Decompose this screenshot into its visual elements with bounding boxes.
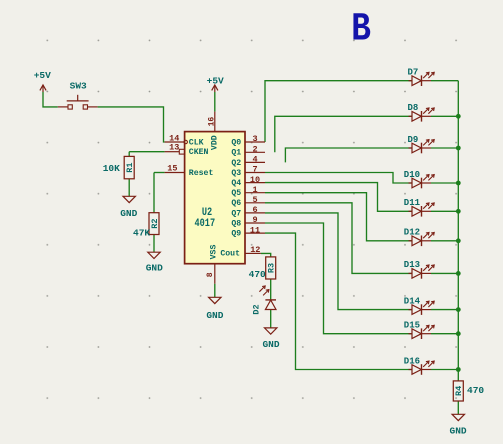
svg-text:470: 470: [249, 269, 266, 280]
svg-text:B: B: [351, 7, 371, 52]
svg-text:16: 16: [207, 117, 216, 127]
svg-text:Q6: Q6: [231, 199, 241, 208]
svg-text:GND: GND: [262, 339, 279, 350]
svg-text:2: 2: [252, 145, 257, 155]
svg-text:47K: 47K: [133, 228, 150, 239]
svg-text:10: 10: [250, 175, 260, 185]
svg-text:GND: GND: [450, 426, 467, 437]
svg-text:D16: D16: [404, 356, 420, 366]
svg-text:11: 11: [250, 225, 260, 235]
svg-text:+5V: +5V: [34, 70, 51, 81]
svg-text:D15: D15: [404, 321, 420, 331]
svg-text:CKEN: CKEN: [189, 148, 209, 157]
svg-text:Q8: Q8: [231, 219, 241, 228]
svg-text:6: 6: [252, 205, 257, 215]
svg-text:VSS: VSS: [209, 245, 218, 260]
svg-text:4: 4: [252, 155, 257, 165]
svg-text:GND: GND: [146, 263, 163, 274]
svg-text:R4: R4: [454, 386, 464, 396]
svg-text:1: 1: [252, 185, 257, 195]
svg-text:Q9: Q9: [231, 230, 241, 239]
svg-text:Reset: Reset: [189, 169, 214, 178]
svg-text:12: 12: [250, 245, 260, 255]
svg-text:GND: GND: [206, 310, 223, 321]
svg-text:Q0: Q0: [231, 138, 241, 147]
svg-text:D12: D12: [404, 228, 420, 238]
svg-text:D14: D14: [404, 296, 421, 306]
svg-text:SW3: SW3: [70, 81, 87, 92]
svg-text:13: 13: [169, 142, 179, 152]
svg-text:Q5: Q5: [231, 189, 241, 198]
svg-text:VDD: VDD: [211, 135, 220, 150]
svg-text:4017: 4017: [195, 217, 216, 229]
svg-text:CLK: CLK: [189, 138, 204, 147]
svg-text:Cout: Cout: [220, 250, 240, 259]
svg-text:D8: D8: [408, 103, 419, 113]
svg-text:D11: D11: [404, 198, 421, 208]
svg-text:D10: D10: [404, 170, 420, 180]
svg-text:Q4: Q4: [231, 179, 241, 188]
svg-text:15: 15: [167, 164, 177, 174]
svg-text:+5V: +5V: [207, 76, 224, 87]
svg-text:R2: R2: [150, 218, 160, 228]
svg-text:GND: GND: [120, 208, 137, 219]
svg-text:Q3: Q3: [231, 169, 241, 178]
svg-text:3: 3: [252, 134, 257, 144]
svg-text:470: 470: [467, 385, 484, 396]
svg-text:Q2: Q2: [231, 159, 241, 168]
svg-text:D2: D2: [251, 304, 261, 314]
svg-text:5: 5: [252, 195, 257, 205]
svg-text:D13: D13: [404, 260, 420, 270]
svg-text:8: 8: [206, 272, 215, 277]
svg-text:R3: R3: [267, 263, 277, 273]
svg-text:9: 9: [252, 215, 257, 225]
svg-text:R1: R1: [125, 162, 135, 172]
svg-text:Q7: Q7: [231, 209, 241, 218]
svg-text:Q1: Q1: [231, 149, 241, 158]
svg-text:7: 7: [252, 165, 257, 175]
svg-text:10K: 10K: [103, 163, 120, 174]
svg-text:D9: D9: [408, 135, 419, 145]
svg-text:D7: D7: [408, 68, 419, 78]
